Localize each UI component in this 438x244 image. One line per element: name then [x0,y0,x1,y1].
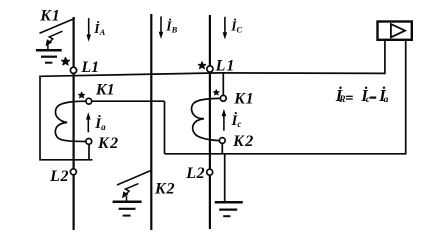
svg-text:K1: K1 [95,82,115,99]
CT secondary winding, phase A [55,101,86,141]
fault K1: stub to ground [47,44,49,50]
terminal L2 of CT A [70,169,76,175]
current arrow İC on phase C [224,17,226,35]
terminal L2 of CT C [207,169,213,175]
ground: CT C secondary earthing [215,201,243,204]
current arrow İc (CT C secondary) [223,114,225,131]
current arrow İA on phase A [88,18,90,37]
fault K2: stub to ground [126,196,128,201]
polarity star at L1 of CT C [198,62,205,69]
relay overcurrent triangle [391,24,405,37]
wire: left loop vertical (down from top run) [39,76,41,160]
fault K1: lightning arrow [48,31,63,43]
fault K2: lightning arrow [124,184,138,196]
terminal K2 of CT C [219,138,225,144]
svg-text:K2: K2 [154,180,175,197]
terminal K1 of CT A [86,98,92,104]
wire: from K2 of CT C down to bottom run [221,143,223,154]
wire: secondary top run from left loop to relay left terminal [40,73,385,76]
svg-text:L2: L2 [185,165,205,182]
relay KA box [378,22,412,40]
CT secondary winding, phase C [192,98,221,140]
svg-text:L2: L2 [49,168,69,185]
wire: secondary earthing drop to ground [224,154,226,203]
phase C conductor [209,15,211,229]
terminal L1 of CT A [70,67,76,73]
polarity star at K1 of CT C [213,90,219,95]
polarity star at L1 of CT A [62,58,70,65]
fault K1: diagonal from phase A [40,18,75,33]
svg-text:K2: K2 [232,133,255,150]
phase B conductor [150,14,152,230]
wire: riser from bottom run to relay right terminal [405,39,407,155]
wire: drop from K2 of CT A to bottom-left run [88,144,90,160]
svg-text:L1: L1 [80,59,99,76]
terminal L1 of CT C [207,66,213,72]
terminal K1 of CT C [220,95,226,101]
svg-text:K1: K1 [39,8,60,25]
wire: from K1 of CT A going right [92,100,165,102]
svg-text:K1: K1 [233,91,254,108]
fault K2: diagonal from phase B [117,170,152,185]
ground under fault K1 [36,49,62,52]
current arrow İa (CT A secondary) [87,118,89,133]
wire: vertical jog down right of phase B [164,101,166,154]
wire: left loop bottom run to K2 of CT A [39,159,92,161]
svg-text:L1: L1 [215,58,236,75]
wire: riser from top run to relay left terminal [384,39,386,74]
svg-text:K2: K2 [97,135,120,152]
current arrow İB on phase B [160,16,162,34]
ground under fault K2 [113,201,142,204]
polarity star at K1 of CT A [78,92,84,98]
terminal K2 of CT A [86,139,92,145]
wire: secondary bottom run to relay right terminal [165,153,406,155]
phase A conductor [72,17,74,230]
wire: from top run down to K1 of CT C [222,73,224,96]
